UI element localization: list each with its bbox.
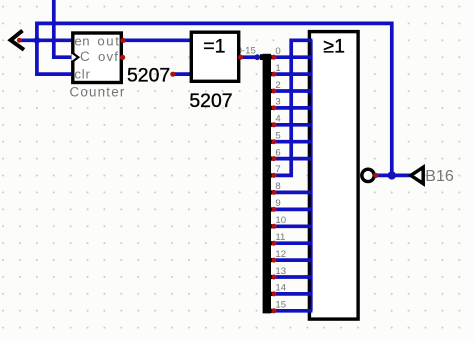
svg-text:4: 4 [275,114,281,125]
wire splitter bit0 [276,55,312,59]
svg-text:14: 14 [275,283,286,294]
wire splitter bit6 [276,157,312,161]
counter U1 [73,33,122,83]
svg-text:6: 6 [275,147,280,158]
svg-text:8: 8 [275,181,280,192]
svg-text:ovf: ovf [98,49,119,64]
wire XOR out to splitter [242,55,258,59]
junction left loop [34,37,41,44]
svg-text:7: 7 [275,164,280,175]
negation bubble [362,169,374,181]
wire splitter bit4 [276,123,312,127]
wire tunnel to counter en [20,38,74,42]
svg-text:12: 12 [275,249,286,260]
xor gate U3 =1 [191,32,238,81]
wire gate input rail [311,40,313,311]
svg-text:9: 9 [275,198,280,209]
wire splitter bit3 [276,106,312,110]
splitter input arm [260,54,263,60]
pin dot xor out [238,55,243,60]
svg-text:=1: =1 [203,35,225,57]
wire splitter bit15 [276,309,312,313]
svg-text:Counter: Counter [70,84,126,99]
wire splitter bit11 [276,241,312,245]
svg-text:5207: 5207 [127,64,170,86]
counter clock chevron [72,52,79,62]
svg-text:5207: 5207 [189,90,232,112]
svg-text:clr: clr [74,66,90,81]
output pin B16 triangle [411,167,423,183]
splitter bar [263,54,271,314]
svg-text:13: 13 [275,266,286,277]
wire splitter bit7 riser to gate input 0 [276,40,312,175]
svg-text:10: 10 [275,215,286,226]
wire constant to XOR gate [175,72,192,76]
wire top feedback loop [37,23,392,175]
svg-text:15: 15 [275,300,286,311]
junction splitter input [254,54,260,60]
splitter output stubs [271,55,274,313]
svg-text:out: out [97,34,120,49]
svg-text:≥1: ≥1 [323,35,345,57]
wire gate output to B16 [377,174,411,178]
wire splitter bit10 [276,224,312,228]
wire splitter bit5 [276,140,312,144]
wire clock from top to counter C [54,0,73,57]
wire splitter bit13 [276,275,312,279]
wire splitter bit1 [276,72,312,76]
svg-text:0: 0 [275,46,280,57]
svg-text:11: 11 [275,232,285,243]
wire splitter bit14 [276,292,312,296]
pin dots splitter outputs [272,55,277,314]
or-gate U2 [309,32,358,320]
pin dot constant [170,72,175,77]
pin dot counter ovf [120,55,125,60]
svg-text:5: 5 [275,131,280,142]
tunnel arrow A [11,31,24,50]
pin dot counter out [120,38,125,43]
wire splitter bit9 [276,208,312,212]
wire splitter bit12 [276,258,312,262]
svg-text:2: 2 [275,80,280,91]
svg-text:1: 1 [275,63,280,74]
svg-text:B16: B16 [425,168,454,185]
pin dot nor out [373,173,378,178]
svg-text:C: C [80,49,90,64]
svg-text:en: en [74,34,90,49]
wire splitter bit8 [276,191,312,195]
splitter bit numbers [275,46,286,311]
svg-text:3: 3 [275,97,280,108]
wire counter out to XOR gate [123,38,191,42]
junction output node [388,171,396,179]
wire splitter bit2 [276,89,312,93]
pin dot tunnel [17,38,22,43]
